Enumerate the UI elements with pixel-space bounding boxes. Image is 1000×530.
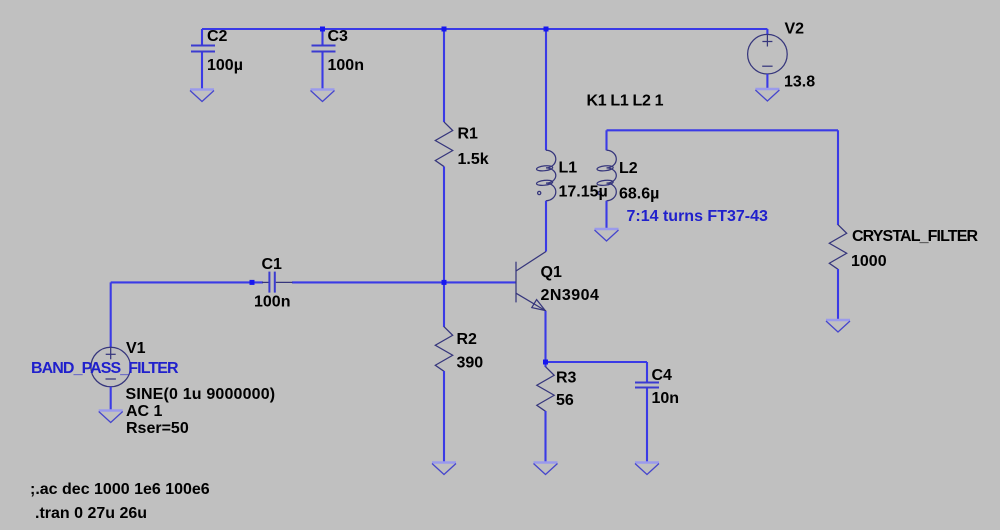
svg-text:100n: 100n: [254, 294, 290, 311]
svg-text:10n: 10n: [652, 390, 680, 407]
svg-text:7:14 turns FT37-43: 7:14 turns FT37-43: [627, 208, 768, 225]
svg-text:1000: 1000: [851, 253, 887, 270]
svg-text:Q1: Q1: [541, 264, 562, 281]
svg-text:13.8: 13.8: [784, 74, 815, 91]
svg-text:100µ: 100µ: [207, 57, 243, 74]
svg-text:L2: L2: [619, 160, 638, 177]
svg-text:390: 390: [457, 355, 484, 372]
svg-text:;.ac dec 1000 1e6 100e6: ;.ac dec 1000 1e6 100e6: [30, 481, 210, 498]
svg-text:V2: V2: [785, 21, 805, 38]
svg-text:1.5k: 1.5k: [458, 151, 489, 168]
svg-text:17.15µ: 17.15µ: [559, 184, 608, 201]
svg-text:68.6µ: 68.6µ: [619, 186, 659, 203]
svg-text:CRYSTAL_FILTER: CRYSTAL_FILTER: [852, 228, 978, 245]
svg-text:R3: R3: [556, 370, 577, 387]
svg-text:.tran 0 27u 26u: .tran 0 27u 26u: [35, 505, 147, 522]
svg-text:C1: C1: [262, 256, 283, 273]
svg-text:100n: 100n: [328, 57, 364, 74]
svg-text:R1: R1: [458, 126, 479, 143]
svg-text:C3: C3: [328, 28, 349, 45]
svg-text:K1 L1 L2 1: K1 L1 L2 1: [587, 93, 664, 110]
svg-text:L1: L1: [559, 160, 578, 177]
svg-text:Rser=50: Rser=50: [126, 420, 189, 437]
svg-text:BAND_PASS_FILTER: BAND_PASS_FILTER: [31, 360, 179, 377]
svg-text:V1: V1: [126, 340, 146, 357]
svg-text:AC 1: AC 1: [126, 403, 163, 420]
svg-text:C4: C4: [652, 367, 673, 384]
svg-text:2N3904: 2N3904: [541, 287, 600, 304]
svg-text:SINE(0 1u 9000000): SINE(0 1u 9000000): [126, 386, 276, 403]
svg-text:C2: C2: [207, 28, 228, 45]
svg-text:56: 56: [556, 392, 574, 409]
svg-text:R2: R2: [457, 331, 478, 348]
